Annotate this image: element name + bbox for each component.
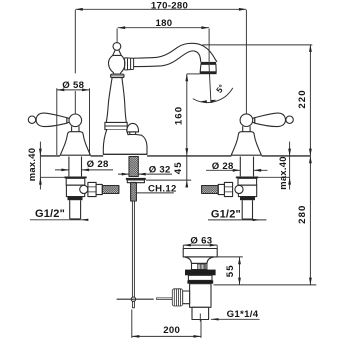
dim D58 ext — [57, 88, 90, 155]
left handle lever grip — [36, 113, 67, 127]
drain o-ring band — [185, 270, 216, 276]
dim 170-280 ext left — [74, 10, 76, 114]
arrows 180 — [118, 26, 209, 29]
arrow G12 right — [253, 219, 261, 221]
dim 45-160 shared vline — [186, 74, 188, 188]
spout column collar — [105, 122, 127, 129]
left handle ball joint — [69, 114, 82, 127]
dim 170-280 line — [75, 8, 246, 10]
dim D63 line — [183, 244, 217, 246]
arrows 160 — [185, 74, 188, 156]
spout neck ring — [111, 74, 124, 77]
drain tailpiece — [192, 307, 209, 319]
right hose hex nut — [224, 182, 232, 196]
left handle lever neck — [67, 118, 71, 123]
drain side box — [183, 291, 190, 304]
drain taper — [185, 257, 214, 264]
left valve body — [66, 185, 84, 196]
dim D63 ext — [183, 245, 217, 248]
svg-text:170-280: 170-280 — [151, 1, 188, 12]
svg-text:G1*1/4: G1*1/4 — [227, 309, 259, 320]
drain tail centerline tick — [199, 314, 201, 322]
drain side ridged knob — [172, 289, 182, 306]
arrow 45 bottom — [185, 180, 188, 187]
max40 right nut ext — [258, 176, 290, 178]
svg-text:CH.12: CH.12 — [148, 183, 177, 194]
bottom ext for 280 — [214, 284, 317, 286]
left inlet tube — [70, 200, 81, 219]
svg-text:180: 180 — [156, 18, 173, 29]
spout base bottom edge — [103, 153, 147, 155]
spout base body — [103, 130, 147, 155]
right handle stem neck — [243, 126, 250, 132]
ext 55 top — [217, 256, 242, 258]
arrows 170-280 — [75, 8, 246, 11]
spout onion bulb — [109, 55, 125, 74]
leader G114 — [211, 318, 260, 320]
left handle lever tip ball — [28, 116, 35, 123]
right handle bell cone — [231, 132, 261, 156]
left handle stem neck — [72, 126, 79, 132]
svg-text:200: 200 — [163, 325, 180, 336]
dim 200 ext right — [200, 320, 202, 338]
right handle mounting nut — [238, 178, 257, 185]
dim max40 right vline — [289, 142, 291, 190]
left handle shank below deck — [69, 157, 82, 177]
svg-text:G1/2": G1/2" — [35, 208, 65, 220]
left handle bell cone — [60, 132, 90, 156]
pop-up knob — [127, 123, 139, 131]
spout finial ball — [113, 43, 121, 51]
spout finial neck — [113, 50, 122, 56]
max40 left nut ext — [40, 176, 64, 178]
outlet bottom ext — [187, 73, 200, 75]
right valve body — [238, 185, 256, 196]
dim D32 lines — [118, 173, 172, 175]
spout swivel tilted line — [209, 62, 211, 102]
centre locknut washer — [126, 178, 146, 180]
svg-text:220: 220 — [297, 89, 308, 108]
right hose collar — [218, 184, 224, 194]
svg-text:max.40: max.40 — [26, 148, 37, 182]
drain neck — [192, 263, 207, 269]
left hose collar — [96, 184, 102, 194]
dim max40 left vline — [39, 142, 41, 190]
right handle lever tip ball — [286, 116, 293, 123]
svg-text:Ø 63: Ø 63 — [190, 236, 212, 247]
centre lower threaded rod — [131, 182, 137, 201]
spout outlet body — [200, 64, 216, 72]
arrows 280 — [309, 156, 312, 285]
dim 180 ext right — [208, 28, 210, 61]
arrows D58 — [57, 89, 90, 92]
swivel arc arrows — [201, 100, 217, 104]
drain knurled stem — [198, 264, 206, 269]
arrows max40 right — [288, 149, 291, 185]
arrows max40 left — [39, 149, 42, 185]
svg-text:55: 55 — [225, 264, 236, 277]
dim 180 line — [118, 27, 209, 29]
dim D58 line — [57, 89, 90, 91]
nut bottom ext for 45 — [146, 179, 191, 181]
drain body — [190, 284, 211, 308]
svg-text:280: 280 — [297, 205, 308, 224]
arrows D32 — [122, 173, 146, 176]
centre locknut body — [127, 180, 144, 183]
arrow G12 left — [81, 219, 89, 221]
right handle lever neck — [251, 118, 255, 123]
svg-text:45: 45 — [173, 161, 184, 174]
dim 200 line — [132, 335, 201, 337]
pop-up rod pivot — [131, 297, 135, 301]
svg-text:max.40: max.40 — [277, 156, 288, 190]
dim D28 left lines — [55, 169, 113, 171]
top ext for 220 — [202, 44, 312, 46]
left valve ball port — [80, 185, 88, 193]
leader G12 right — [208, 219, 267, 221]
arrows 200 — [132, 335, 201, 338]
drain mid cylinder — [188, 275, 212, 280]
arrows 55 — [238, 257, 241, 285]
arrows D28 right — [233, 169, 262, 172]
left handle mounting washer — [64, 177, 86, 179]
arrows 220 — [309, 45, 312, 156]
spout arm and arch — [134, 43, 217, 62]
dim 200 ext left — [131, 310, 133, 338]
pop-up crossbar — [117, 298, 154, 300]
spout baluster column — [106, 78, 126, 123]
arrows D28 left — [61, 169, 89, 172]
swivel arc — [193, 88, 233, 103]
svg-text:Ø 28: Ø 28 — [87, 159, 109, 170]
dim 170-280 ext right — [245, 10, 247, 113]
dim 180 ext left — [116, 28, 118, 43]
spout outlet bottom band — [200, 72, 217, 74]
svg-text:G1/2": G1/2" — [211, 208, 241, 220]
leader CH.12 — [136, 192, 173, 194]
right handle mounting washer — [236, 177, 258, 179]
right valve ball port — [235, 185, 243, 193]
pop-up rod — [132, 201, 134, 308]
arrows D63 — [183, 244, 217, 247]
deck line — [40, 155, 310, 157]
centre threaded shank — [129, 157, 138, 177]
leader G12 left — [30, 219, 89, 221]
svg-text:160: 160 — [173, 106, 184, 125]
right inlet tube — [242, 200, 252, 219]
dim 55 vline — [239, 257, 241, 285]
right handle lever grip — [255, 113, 286, 127]
right valve lower band — [240, 197, 255, 201]
dim D28 right lines — [206, 169, 268, 171]
drain flange — [183, 249, 217, 257]
arrowheads — [39, 8, 312, 338]
spout outlet collar band — [201, 62, 217, 64]
right hose braided — [202, 186, 219, 194]
left valve lower band — [68, 197, 83, 201]
spout arm collar rings — [125, 58, 134, 71]
right handle shank below deck — [240, 157, 253, 177]
arrow G114 — [211, 318, 219, 320]
svg-text:Ø 28: Ø 28 — [212, 161, 234, 172]
pop-up linkage bar — [157, 298, 175, 300]
left hose hex nut — [88, 182, 96, 196]
drain second band — [187, 280, 213, 283]
dim 220-280 vline — [309, 45, 311, 285]
svg-text:Ø 58: Ø 58 — [62, 80, 84, 91]
svg-text:Ø 32: Ø 32 — [149, 164, 171, 175]
left handle mounting nut — [66, 178, 85, 185]
left hose braided — [102, 186, 119, 194]
right handle ball joint — [240, 114, 253, 127]
